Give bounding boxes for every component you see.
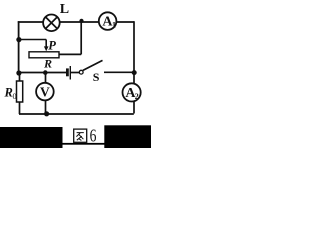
svg-text:6: 6 (90, 126, 97, 146)
svg-text:1: 1 (112, 20, 116, 29)
node J1 (pot riser joins top wire) (79, 19, 83, 23)
svg-text:P: P (48, 39, 56, 53)
ammeter A2 (123, 83, 141, 101)
wire middle row left (to battery) (18, 72, 66, 74)
rheostat R body (29, 52, 59, 58)
resistor R0 body (17, 81, 23, 102)
switch S pivot (79, 70, 83, 74)
voltmeter V (36, 83, 54, 101)
battery cell: long thin positive plate (70, 66, 71, 80)
node middle row left junction (16, 70, 21, 75)
svg-text:R: R (43, 57, 52, 71)
switch S blade (83, 60, 103, 70)
wire top (node from battery+ loop): left corner to right corner (18, 21, 134, 23)
label R0 (4, 86, 17, 102)
wiper arrowhead (44, 46, 49, 51)
wire left vertical (18, 21, 20, 73)
wire bottom (19, 113, 134, 115)
svg-text:L: L (60, 2, 69, 17)
label P (48, 39, 56, 53)
caption digit 6 (90, 126, 97, 146)
label S (93, 70, 100, 84)
wire voltmeter top stub (45, 73, 47, 84)
svg-text:R: R (4, 86, 13, 100)
wire wiper P tap (19, 40, 47, 48)
ammeter A1 (99, 12, 117, 30)
caption right black bar (104, 125, 151, 148)
svg-text:V: V (40, 85, 50, 100)
wire middle row battery to switch pivot (71, 72, 79, 74)
wire voltmeter bottom stub (45, 101, 47, 115)
node voltmeter top junction (43, 70, 48, 75)
label L (60, 2, 69, 17)
svg-text:S: S (93, 70, 100, 84)
caption character 图 (74, 129, 87, 142)
lamp L (43, 14, 60, 31)
wire middle row switch to right junction (104, 71, 134, 73)
caption left black bar (0, 127, 63, 148)
node wiper tap on left wire (16, 37, 21, 42)
label R (43, 57, 52, 71)
svg-text:0: 0 (13, 92, 17, 101)
svg-text:2: 2 (135, 92, 139, 101)
wire right vertical (133, 21, 135, 113)
battery cell: short thick negative plate (66, 68, 69, 76)
caption baseline rule (63, 143, 105, 145)
node voltmeter bottom junction (44, 111, 49, 116)
wire R0 column (19, 73, 21, 115)
node right middle junction (132, 70, 137, 75)
wire rheostat right terminal riser to node J1 (59, 21, 81, 55)
